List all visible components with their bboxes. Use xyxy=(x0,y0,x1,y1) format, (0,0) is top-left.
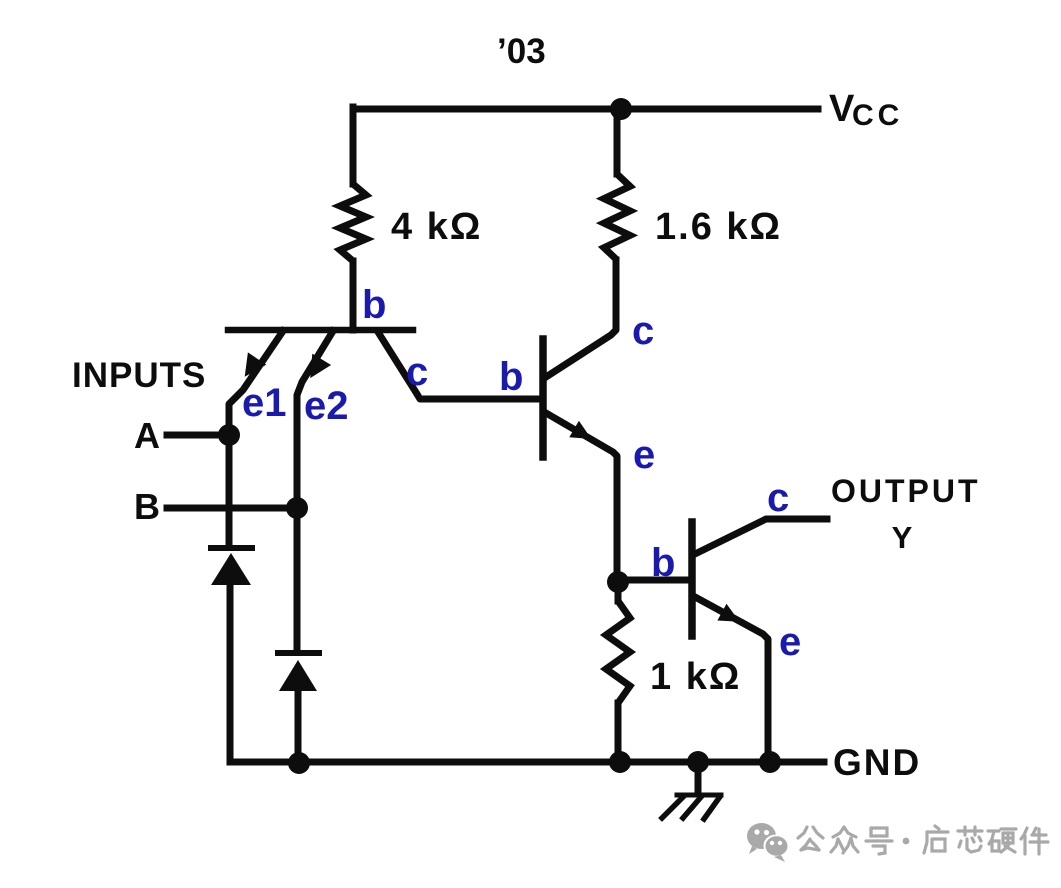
svg-text:1.6 kΩ: 1.6 kΩ xyxy=(655,206,782,248)
svg-text:c: c xyxy=(406,350,428,394)
svg-text:1 kΩ: 1 kΩ xyxy=(650,656,741,698)
svg-text:e: e xyxy=(633,433,655,477)
svg-text:c: c xyxy=(767,476,789,520)
svg-text:b: b xyxy=(651,541,675,585)
svg-text:CC: CC xyxy=(852,99,903,132)
svg-text:’03: ’03 xyxy=(497,32,546,71)
svg-text:b: b xyxy=(362,283,386,327)
svg-text:GND: GND xyxy=(833,742,921,783)
svg-text:OUTPUT: OUTPUT xyxy=(831,473,981,509)
svg-text:e2: e2 xyxy=(304,384,349,428)
svg-text:A: A xyxy=(134,415,160,456)
svg-text:e1: e1 xyxy=(242,381,287,425)
svg-text:c: c xyxy=(632,309,654,353)
svg-text:e: e xyxy=(779,620,801,664)
svg-text:B: B xyxy=(134,486,160,527)
svg-text:b: b xyxy=(499,355,523,399)
svg-text:Y: Y xyxy=(892,520,913,555)
svg-text:4 kΩ: 4 kΩ xyxy=(391,206,482,248)
svg-text:INPUTS: INPUTS xyxy=(72,356,206,395)
